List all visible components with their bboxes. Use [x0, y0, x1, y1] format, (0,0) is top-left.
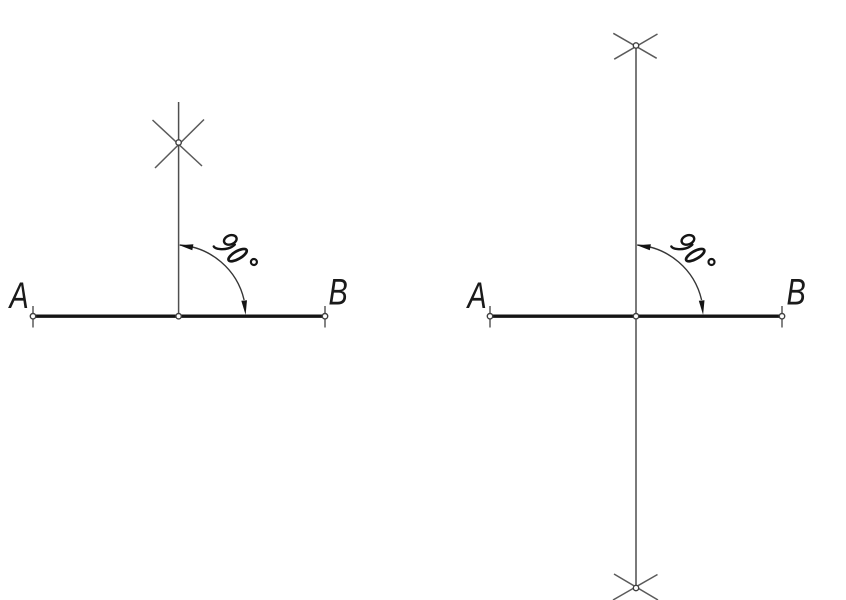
label A (figure 1)	[8, 283, 27, 309]
point A circle (figure 2)	[487, 314, 492, 319]
cross mark diagonal 1 (figure 1)	[153, 120, 203, 166]
segment AB (figure 2)	[490, 315, 782, 318]
segment AB (figure 1)	[33, 315, 325, 318]
perpendicular line (figure 1)	[178, 102, 180, 316]
lower cross mark diagonal 2 (figure 2)	[613, 575, 658, 600]
perpendicular bisector line (figure 2)	[635, 45, 637, 587]
point A circle (figure 1)	[30, 314, 35, 319]
arc arrowhead lower (figure 2)	[699, 300, 705, 315]
arc arrowhead lower (figure 1)	[241, 300, 247, 315]
upper cross mark diagonal 1 (figure 2)	[613, 33, 656, 58]
figure 1: perpendicular erected at midpoint of segment AB	[8, 102, 347, 328]
upper cross mark diagonal 2 (figure 2)	[614, 34, 657, 59]
midpoint circle (figure 1)	[176, 314, 181, 319]
endpoint tick at A (figure 1)	[32, 306, 34, 328]
angle value 90 degrees (figure 2)	[671, 233, 714, 265]
label B (figure 1)	[329, 279, 346, 305]
endpoint tick at B (figure 2)	[781, 306, 783, 328]
label A (figure 2)	[466, 283, 485, 309]
arc arrowhead upper (figure 2)	[637, 244, 651, 250]
point B circle (figure 2)	[779, 314, 784, 319]
label B (figure 2)	[787, 279, 804, 305]
midpoint circle (figure 2)	[633, 314, 638, 319]
endpoint tick at B (figure 1)	[324, 306, 326, 328]
90-degree angle arc (figure 2)	[637, 245, 701, 300]
lower cross mark diagonal 1 (figure 2)	[614, 574, 658, 600]
upper intersection node circle (figure 2)	[633, 43, 638, 48]
endpoint tick at A (figure 2)	[489, 306, 491, 328]
cross mark diagonal 2 (figure 1)	[155, 120, 204, 169]
arc arrowhead upper (figure 1)	[180, 244, 194, 250]
point B circle (figure 1)	[322, 314, 327, 319]
lower intersection node circle (figure 2)	[633, 585, 638, 590]
angle value 90 degrees (figure 1)	[214, 233, 257, 265]
90-degree angle arc (figure 1)	[180, 245, 244, 300]
intersection node circle (figure 1)	[176, 140, 181, 145]
figure 2: perpendicular bisector line through segment AB	[466, 33, 805, 600]
